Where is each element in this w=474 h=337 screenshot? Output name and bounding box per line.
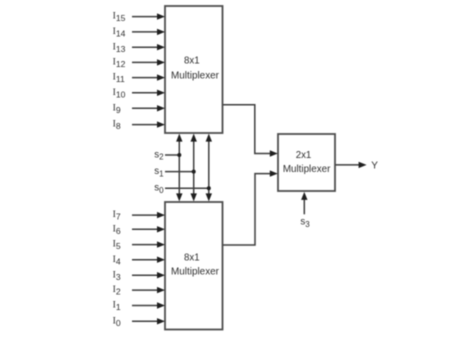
wire select s2 vertical bus between U1 and U2 (176, 134, 182, 202)
wire output Y from U3 (335, 162, 366, 168)
wire input I10 into U1 (132, 90, 165, 96)
svg-text:s3: s3 (300, 217, 310, 229)
wire select s1 horizontal (165, 171, 194, 173)
label I13 (113, 41, 126, 54)
svg-text:I14: I14 (113, 26, 126, 39)
label I3 (113, 269, 121, 282)
wire select s3 into U3 (301, 192, 307, 214)
svg-text:I6: I6 (113, 223, 121, 236)
label s1 (154, 166, 164, 178)
wire U1 output to U3 upper input (223, 105, 278, 157)
svg-text:8x1: 8x1 (184, 252, 200, 263)
label I0 (113, 315, 121, 328)
wire input I4 into U2 (132, 257, 165, 263)
svg-text:I7: I7 (113, 209, 121, 222)
wire input I5 into U2 (132, 241, 165, 247)
junction s0 (207, 186, 211, 190)
label I5 (113, 239, 121, 252)
label I7 (113, 209, 121, 222)
svg-text:s2: s2 (154, 149, 164, 161)
wire input I15 into U1 (132, 13, 165, 19)
label I12 (113, 57, 126, 70)
label I8 (113, 119, 121, 132)
8x1 multiplexer U1 (upper) box (165, 6, 223, 133)
label I11 (113, 72, 125, 85)
wire select s0 vertical bus between U1 and U2 (206, 134, 212, 202)
svg-text:2x1: 2x1 (296, 150, 312, 161)
wire input I1 into U2 (132, 302, 165, 308)
wire select s2 horizontal (165, 154, 179, 156)
junction s2 (177, 153, 181, 157)
wire select s0 horizontal (165, 187, 209, 189)
wire input I9 into U1 (132, 105, 165, 111)
svg-text:I12: I12 (113, 57, 126, 70)
svg-text:I4: I4 (113, 254, 121, 267)
2x1 multiplexer U3 box (278, 134, 335, 191)
wire input I8 into U1 (132, 121, 165, 127)
label I1 (113, 300, 121, 313)
label I14 (113, 26, 126, 39)
svg-text:s1: s1 (154, 166, 164, 178)
label I2 (113, 284, 121, 297)
wire input I7 into U2 (132, 212, 165, 218)
label I4 (113, 254, 121, 267)
wire input I12 into U1 (132, 59, 165, 65)
label Y (node Y) (371, 161, 378, 172)
label U1 "8x1 Multiplexer" (171, 55, 220, 81)
label U2 "8x1 Multiplexer" (171, 252, 220, 277)
svg-text:I13: I13 (113, 41, 126, 54)
svg-text:I15: I15 (113, 11, 126, 24)
svg-text:I0: I0 (113, 315, 121, 328)
svg-text:8x1: 8x1 (184, 55, 200, 66)
wire input I11 into U1 (132, 74, 165, 80)
wire input I13 into U1 (132, 44, 165, 50)
wire input I14 into U1 (132, 29, 165, 35)
label I9 (113, 102, 121, 115)
wire input I6 into U2 (132, 226, 165, 232)
svg-text:I3: I3 (113, 269, 121, 282)
label s3 (300, 217, 310, 229)
svg-text:I10: I10 (113, 87, 126, 100)
label I10 (113, 87, 126, 100)
svg-text:Multiplexer: Multiplexer (283, 164, 331, 175)
junction s1 (192, 170, 196, 174)
svg-text:I2: I2 (113, 284, 121, 297)
label U3 "2x1 Multiplexer" (283, 150, 331, 175)
svg-text:Y: Y (371, 161, 378, 172)
label s0 (154, 183, 164, 195)
8x1 multiplexer U2 (lower) box (165, 202, 223, 330)
wire select s1 vertical bus between U1 and U2 (191, 134, 197, 202)
wire input I0 into U2 (132, 318, 165, 324)
label I6 (113, 223, 121, 236)
svg-text:I1: I1 (113, 300, 121, 313)
wire input I2 into U2 (132, 287, 165, 293)
wire U2 output to U3 lower input (223, 170, 278, 245)
label I15 (113, 11, 126, 24)
svg-text:I11: I11 (113, 72, 125, 85)
svg-text:I8: I8 (113, 119, 121, 132)
wire input I3 into U2 (132, 272, 165, 278)
svg-text:Multiplexer: Multiplexer (171, 267, 220, 278)
svg-text:I9: I9 (113, 102, 121, 115)
svg-text:Multiplexer: Multiplexer (171, 70, 220, 81)
svg-text:s0: s0 (154, 183, 164, 195)
svg-text:I5: I5 (113, 239, 121, 252)
label s2 (154, 149, 164, 161)
